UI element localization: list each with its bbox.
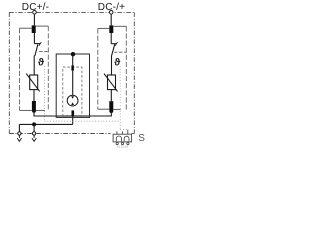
junction dot left indicator: [32, 109, 36, 113]
varistor right box: [108, 75, 116, 90]
linkage tap left of F1 right: [98, 27, 110, 29]
switch blade left: [35, 44, 38, 56]
linkage tap right of F1 left: [36, 25, 49, 27]
earth bus wire: [19, 123, 72, 125]
switch linkage dash right: [114, 51, 126, 53]
linkage tap right of F1 right: [113, 25, 126, 27]
signal contact stub 3: [127, 130, 129, 135]
wire F1 right to switch: [110, 33, 112, 44]
linkage tap left of F1 left: [20, 27, 32, 29]
contact terminal 3: [127, 143, 129, 145]
junction dot right indicator: [109, 109, 113, 113]
remote signalling contact box: [113, 134, 132, 142]
linkage line A left vertical: [19, 28, 21, 110]
varistor right diagonal: [104, 74, 118, 92]
terminal DC-/+: [109, 11, 113, 15]
disconnector F2 right (black): [109, 101, 113, 110]
gdt top electrode: [71, 96, 74, 99]
disconnector F1 right (black): [109, 25, 113, 33]
gdt bottom electrode: [71, 102, 74, 105]
switch stub left: [34, 43, 40, 45]
earth lead 1: [18, 135, 20, 138]
linkage line A right vertical: [97, 28, 99, 109]
wire F2 left down to mid rail: [33, 111, 35, 116]
switch contact tick right: [115, 42, 117, 46]
wire switch to varistor right: [111, 56, 113, 76]
gas discharge tube circle: [67, 95, 78, 106]
wire switch to varistor left: [33, 56, 35, 76]
disconnector F1 left (black): [32, 25, 36, 33]
wire from DC+/- terminal: [33, 14, 35, 25]
switch blade right: [112, 44, 115, 56]
PE terminal 2: [32, 132, 35, 135]
varistor left diagonal: [26, 74, 40, 92]
wire varistor left to F2 left: [33, 90, 35, 101]
indicator line right segment A: [98, 108, 110, 110]
wire to gas discharge tube: [72, 71, 74, 96]
center disconnector (black): [71, 65, 74, 70]
inner dashed module box: [63, 67, 82, 115]
svg-text:ϑ: ϑ: [38, 57, 45, 69]
signal contact stub 2: [121, 131, 123, 134]
indicator line right segment B: [113, 108, 120, 110]
linkage line B right vertical: [125, 26, 127, 110]
indicator line left segment B: [36, 109, 45, 111]
monitoring dotted link to contact: [120, 129, 128, 131]
contact arc 1: [116, 136, 121, 141]
center module box: [56, 54, 89, 117]
signal contact stub 1: [116, 131, 118, 134]
wire gdt to earth bus: [72, 116, 74, 124]
contact terminal 2: [121, 143, 123, 145]
svg-text:11 12 14: 11 12 14: [117, 145, 128, 149]
earth arrow 1: [17, 138, 21, 141]
svg-text:S: S: [138, 133, 145, 144]
monitoring dotted line left vertical: [44, 66, 46, 121]
wire node N down: [72, 54, 74, 65]
junction dot node N: [71, 52, 75, 56]
wire bus dot down to PE terminal 2: [33, 124, 35, 131]
junction dot earth bus: [32, 122, 36, 126]
varistor left box: [30, 75, 38, 90]
earth lead 2: [33, 135, 35, 138]
enclosure boundary dash-dot rectangle: [9, 12, 134, 133]
contact terminal 1: [116, 143, 118, 145]
PE terminal 1: [18, 132, 21, 135]
switch stub right: [111, 43, 116, 45]
contact arc 2: [124, 136, 129, 141]
earth arrow 2: [32, 138, 36, 141]
gdt lower black element: [72, 110, 75, 116]
disconnector F2 left (black): [32, 101, 36, 110]
wire F1 left to switch: [33, 33, 35, 44]
mid-point rail wire: [34, 115, 112, 117]
wire F2 right down to mid rail: [110, 111, 112, 116]
wire from DC-/+ terminal: [110, 14, 112, 25]
indicator line left segment A: [20, 109, 32, 111]
linkage line B left vertical: [47, 26, 49, 110]
switch contact tick left: [39, 42, 41, 46]
terminal DC+/-: [33, 11, 37, 15]
switch linkage dash left: [39, 51, 48, 53]
wire varistor right to F2 right: [110, 90, 112, 102]
monitoring dotted horizontal: [45, 120, 121, 122]
wire bus end down to PE terminal 1: [18, 124, 20, 131]
monitoring dotted line right vertical: [119, 66, 121, 130]
